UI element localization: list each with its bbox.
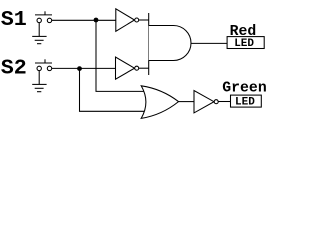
switch S1 (35, 11, 52, 22)
LED box D2 (231, 95, 262, 107)
ground (S1) (32, 23, 46, 44)
wire U1 to AND gate (139, 19, 149, 21)
wire J2 down to OR gate (80, 69, 151, 112)
svg-text:S1: S1 (1, 7, 27, 32)
LED box D1 (227, 37, 264, 49)
svg-text:S2: S2 (1, 56, 27, 81)
svg-text:Green: Green (222, 81, 266, 97)
node junction J1 (94, 18, 99, 23)
wire S1 to inverter U1 (52, 19, 116, 21)
svg-text:LED: LED (235, 97, 255, 109)
node junction J2 (77, 66, 82, 71)
wire U3 to Red LED (191, 42, 227, 44)
switch S2 (35, 59, 52, 70)
inverter U2 (116, 57, 139, 79)
wire U5 to Green LED (218, 101, 230, 103)
wire U2 to AND gate (139, 67, 149, 69)
wire S2 to inverter U2 (52, 67, 116, 69)
svg-text:LED: LED (234, 38, 254, 50)
and-gate U3 (149, 13, 191, 75)
ground (S2) (32, 71, 46, 92)
inverter U5 (194, 91, 218, 113)
inverter U1 (116, 9, 139, 32)
or-gate U4 (141, 86, 178, 119)
wire J1 down to OR gate (96, 20, 150, 91)
wire U4 to inverter U5 (179, 101, 195, 103)
